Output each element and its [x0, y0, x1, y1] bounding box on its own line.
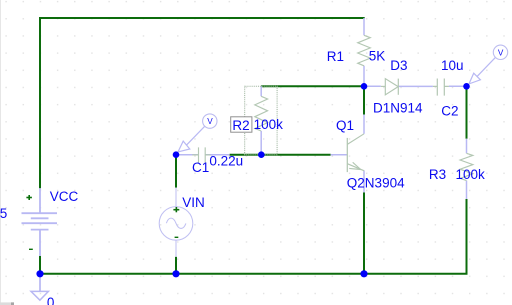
- junction node R1/D3/Q1 collector: [361, 83, 368, 90]
- wire C1 to Q1 base: [230, 154, 331, 156]
- svg-text:Q2N3904: Q2N3904: [347, 176, 405, 191]
- junction node C1/VIN/probe: [173, 151, 180, 158]
- svg-text:R2: R2: [232, 118, 249, 133]
- battery VCC V1: [22, 188, 58, 256]
- junction node R2 bottom: [258, 151, 265, 158]
- svg-text:5K: 5K: [369, 49, 386, 64]
- svg-text:V: V: [498, 48, 504, 57]
- svg-text:0: 0: [47, 295, 55, 305]
- wire R3 bottom to rail: [466, 199, 468, 274]
- window left edge: [0, 0, 2, 305]
- resistor R1: [358, 18, 371, 86]
- wire VCC bottom: [39, 256, 41, 274]
- transistor Q1: [331, 115, 365, 193]
- label box R2: [231, 117, 252, 133]
- junction node C2/R3/probe: [463, 83, 470, 90]
- svg-text:100k: 100k: [254, 117, 284, 132]
- resistor R2: [255, 86, 268, 154]
- wire node to R3 top: [466, 86, 468, 138]
- resistor R3: [460, 139, 473, 199]
- wire bottom rail: [39, 273, 468, 275]
- voltage probe V (at C1 node): [178, 114, 217, 152]
- junction node VIN/rail: [172, 270, 179, 277]
- VIN plus sign: [173, 207, 179, 212]
- wire Q1 emitter to rail: [363, 192, 365, 273]
- junction node Q1 emitter/rail: [360, 270, 367, 277]
- svg-text:Q1: Q1: [336, 118, 354, 133]
- svg-text:D1N914: D1N914: [373, 101, 423, 116]
- svg-text:C2: C2: [441, 103, 458, 118]
- capacitor C2: [433, 79, 467, 96]
- battery minus sign: [29, 248, 33, 250]
- wire VIN bottom: [175, 257, 177, 274]
- svg-text:VIN: VIN: [182, 195, 205, 210]
- voltage probe V (at output node): [469, 45, 508, 84]
- svg-text:C1: C1: [192, 160, 209, 175]
- svg-text:V: V: [207, 117, 213, 126]
- wire VIN top: [175, 155, 177, 188]
- svg-text:100k: 100k: [456, 167, 486, 182]
- ground 0: [31, 274, 48, 300]
- svg-text:10u: 10u: [441, 58, 464, 73]
- wire node to Q1 collector: [363, 86, 365, 114]
- svg-text:D3: D3: [390, 58, 407, 73]
- battery plus sign: [26, 195, 32, 200]
- svg-text:R1: R1: [327, 49, 344, 64]
- junction node VCC/rail: [36, 270, 43, 277]
- scrollbar corner bottom-left: [0, 302, 14, 305]
- wire top rail: [39, 17, 365, 19]
- diode D3: [365, 79, 433, 95]
- wire R2 top to node: [261, 85, 364, 87]
- source VIN: [159, 188, 193, 257]
- svg-text:R3: R3: [429, 167, 446, 182]
- svg-text:5: 5: [0, 206, 7, 221]
- wire left vertical (VCC top): [39, 17, 41, 188]
- svg-text:0.22u: 0.22u: [209, 153, 243, 168]
- VIN minus sign: [175, 236, 179, 238]
- capacitor C1: [176, 147, 230, 163]
- selection box around R2: [245, 86, 277, 154]
- svg-text:VCC: VCC: [50, 189, 79, 204]
